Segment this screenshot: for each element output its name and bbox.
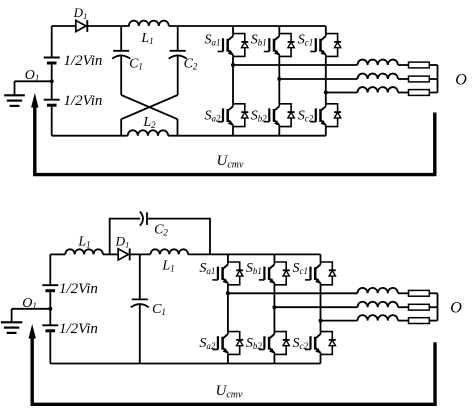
wire C2 top lead (top circuit) xyxy=(177,26,179,51)
inductor load c (bottom circuit) xyxy=(358,315,398,320)
wire bottom circuit leg b bottom xyxy=(273,354,275,363)
node phase a top circuit xyxy=(231,63,235,67)
resistor load a (bottom circuit) xyxy=(409,290,430,296)
svg-text:O: O xyxy=(450,300,462,317)
wire C2 bottom lead (top circuit) xyxy=(177,55,179,95)
wire C1 top lead (bottom circuit) xyxy=(139,254,141,299)
wire top circuit leg b mid xyxy=(278,56,280,103)
wire bottom circuit leg b top xyxy=(273,254,275,262)
wire phase a (top circuit) xyxy=(233,64,358,66)
wire top circuit leg c mid xyxy=(325,56,327,103)
wire C2 branch right (bottom circuit) xyxy=(147,219,210,255)
inductor load a (top circuit) xyxy=(358,60,398,65)
resistor load c (top circuit) xyxy=(409,90,430,96)
wire between batteries (bottom circuit) xyxy=(49,292,51,325)
battery V1 1/2Vin (bottom circuit) xyxy=(42,285,58,291)
wire phase c (bottom circuit) xyxy=(321,320,358,322)
wire phase c (top circuit) xyxy=(326,92,358,94)
wire left column upper (top circuit) xyxy=(51,26,53,58)
transistor Sc2 (bottom circuit) xyxy=(293,332,336,355)
wire bottom circuit leg c mid xyxy=(320,285,322,332)
node phase b bottom circuit xyxy=(272,305,276,309)
wire between batteries (top circuit) xyxy=(51,65,53,100)
inductor L1 second (bottom circuit) xyxy=(151,249,189,254)
wire bottom circuit leg a top xyxy=(227,254,229,262)
svg-text:O: O xyxy=(455,72,467,89)
inductor L2 (top circuit) xyxy=(128,130,168,135)
svg-text:1/2Vin: 1/2Vin xyxy=(64,53,103,69)
wire top rail C (bottom circuit) xyxy=(130,253,151,255)
wire resistor-neutral c (top circuit) xyxy=(429,92,437,94)
wire top rail C / positive bus (top circuit) xyxy=(169,25,326,27)
wire bottom circuit leg a mid xyxy=(227,285,229,332)
node phase c bottom circuit xyxy=(319,319,323,323)
wire C2 branch left (bottom circuit) xyxy=(110,219,141,255)
wire left column lower (top circuit) xyxy=(51,107,53,136)
ground (top circuit) xyxy=(4,81,25,106)
transistor Sa2 (top circuit) xyxy=(205,104,249,127)
transistor Sb2 (bottom circuit) xyxy=(246,332,290,355)
diode D1 (bottom circuit) xyxy=(115,234,130,261)
wire C1 bottom lead (bottom circuit) xyxy=(139,304,141,364)
wire phase b (top circuit) xyxy=(279,78,357,80)
transistor Sc1 (bottom circuit) xyxy=(293,261,336,285)
wire bottom rail / negative bus (bottom circuit) xyxy=(50,363,320,365)
wire Ucmv thick path (bottom circuit) xyxy=(32,335,435,404)
inductor load b (top circuit) xyxy=(358,74,398,79)
wire top circuit leg b bottom xyxy=(278,127,280,136)
battery V2 1/2Vin (top circuit) xyxy=(44,100,60,106)
wire top circuit leg b top xyxy=(278,26,280,34)
wire cross diagonal C1 (top circuit) xyxy=(121,95,177,119)
wire top rail D / positive bus (bottom circuit) xyxy=(188,253,321,255)
wire top circuit leg a top xyxy=(232,26,234,34)
transistor Sc2 (top circuit) xyxy=(298,104,341,127)
wire coil-resistor a (top circuit) xyxy=(398,64,409,66)
resistor load c (bottom circuit) xyxy=(409,318,430,324)
wire top rail A (bottom circuit) xyxy=(50,253,65,255)
wire left column upper (bottom circuit) xyxy=(49,254,51,285)
arrow head Ucmv (bottom circuit) xyxy=(29,324,36,339)
wire to ground (bottom circuit) xyxy=(12,308,51,310)
resistor load a (top circuit) xyxy=(409,62,430,68)
wire coil-resistor b (bottom circuit) xyxy=(398,306,409,308)
svg-text:1/2Vin: 1/2Vin xyxy=(59,321,98,337)
transistor Sb2 (top circuit) xyxy=(251,104,295,127)
inductor load b (bottom circuit) xyxy=(358,302,398,307)
wire neutral bus (top circuit) xyxy=(437,65,439,93)
wire cross diagonal C2 (top circuit) xyxy=(121,95,178,119)
inductor load c (top circuit) xyxy=(358,87,398,92)
svg-text:1/2Vin: 1/2Vin xyxy=(64,93,103,109)
resistor load b (bottom circuit) xyxy=(409,304,430,310)
wire top rail A (top circuit) xyxy=(52,25,76,27)
wire top circuit leg a bottom xyxy=(232,127,234,136)
wire top rail B (top circuit) xyxy=(87,25,129,27)
capacitor C1 (bottom circuit) xyxy=(131,299,149,307)
wire phase b (bottom circuit) xyxy=(274,306,357,308)
arrow head Ucmv (top circuit) xyxy=(31,93,38,108)
transistor Sa2 (bottom circuit) xyxy=(199,332,243,355)
resistor load b (top circuit) xyxy=(409,76,430,82)
ground (bottom circuit) xyxy=(1,309,23,333)
wire to ground (top circuit) xyxy=(15,80,52,82)
transistor Sb1 (top circuit) xyxy=(251,33,295,57)
wire C1 bottom lead (top circuit) xyxy=(120,55,122,95)
battery V2 1/2Vin (bottom circuit) xyxy=(42,325,58,331)
wire resistor-neutral a (bottom circuit) xyxy=(429,292,437,294)
wire bottom rail A (top circuit) xyxy=(52,135,128,137)
inductor load a (bottom circuit) xyxy=(358,288,398,293)
wire top circuit leg a mid xyxy=(232,56,234,103)
capacitor C2 (top circuit) xyxy=(169,51,187,59)
node phase a bottom circuit xyxy=(226,291,230,295)
node O1 (top circuit) xyxy=(50,79,54,83)
node phase c top circuit xyxy=(324,91,328,95)
wire resistor-neutral b (bottom circuit) xyxy=(429,306,437,308)
wire resistor-neutral b (top circuit) xyxy=(429,78,437,80)
wire coil-resistor b (top circuit) xyxy=(398,78,409,80)
wire top rail B (bottom circuit) xyxy=(103,253,118,255)
wire L2 left riser (top circuit) xyxy=(120,119,122,136)
wire top circuit leg c top xyxy=(325,26,327,34)
inductor L1 input (bottom circuit) xyxy=(65,249,103,254)
wire coil-resistor c (top circuit) xyxy=(398,92,409,94)
node O1 (bottom circuit) xyxy=(48,307,52,311)
battery V1 1/2Vin (top circuit) xyxy=(44,58,60,64)
wire bottom circuit leg c bottom xyxy=(320,354,322,363)
wire bottom rail B / negative bus (top circuit) xyxy=(168,135,326,137)
capacitor C1 (top circuit) xyxy=(112,51,130,59)
wire phase a (bottom circuit) xyxy=(228,292,358,294)
wire coil-resistor a (bottom circuit) xyxy=(398,292,409,294)
wire bottom circuit leg c top xyxy=(320,254,322,262)
wire C1 top lead (top circuit) xyxy=(120,26,122,51)
transistor Sa1 (top circuit) xyxy=(205,33,249,57)
wire bottom circuit leg b mid xyxy=(273,285,275,332)
transistor Sa1 (bottom circuit) xyxy=(199,261,243,285)
wire neutral bus (bottom circuit) xyxy=(437,293,439,320)
transistor Sb1 (bottom circuit) xyxy=(246,261,290,285)
wire bottom circuit leg a bottom xyxy=(227,354,229,363)
wire resistor-neutral a (top circuit) xyxy=(429,64,437,66)
diode D1 (top circuit) xyxy=(73,5,88,32)
capacitor C2 (bottom circuit) xyxy=(140,212,147,226)
wire Ucmv thick path (top circuit) xyxy=(35,104,435,175)
wire L2 right riser (top circuit) xyxy=(177,119,179,136)
wire top circuit leg c bottom xyxy=(325,127,327,136)
node phase b top circuit xyxy=(277,77,281,81)
svg-text:1/2Vin: 1/2Vin xyxy=(59,281,98,297)
inductor L1 (top circuit) xyxy=(129,21,169,26)
wire resistor-neutral c (bottom circuit) xyxy=(429,320,437,322)
wire coil-resistor c (bottom circuit) xyxy=(398,320,409,322)
wire left column lower (bottom circuit) xyxy=(49,332,51,363)
transistor Sc1 (top circuit) xyxy=(298,33,341,57)
